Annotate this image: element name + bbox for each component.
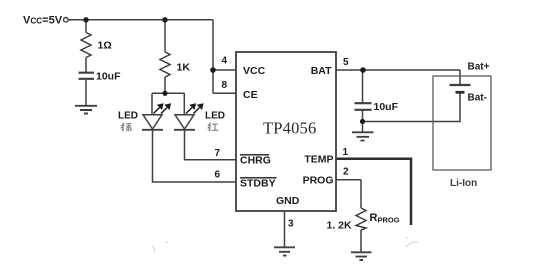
svg-text:1: 1 (343, 147, 349, 158)
svg-text:10uF: 10uF (374, 101, 399, 113)
svg-text:7: 7 (215, 148, 221, 159)
svg-text:VCC: VCC (243, 65, 266, 77)
svg-text:5: 5 (343, 57, 349, 68)
svg-text:CE: CE (243, 89, 258, 101)
svg-text:6: 6 (215, 170, 221, 181)
svg-text:4: 4 (222, 56, 228, 67)
svg-text:1. 2K: 1. 2K (327, 220, 353, 232)
svg-text:PROG: PROG (303, 175, 334, 187)
svg-text:8: 8 (222, 80, 228, 91)
svg-text:RPROG: RPROG (370, 212, 400, 225)
svg-text:Bat+: Bat+ (468, 62, 490, 73)
svg-text:LED: LED (205, 111, 225, 122)
svg-text:BAT: BAT (311, 65, 332, 77)
svg-text:TEMP: TEMP (304, 154, 333, 166)
svg-text:LED: LED (118, 111, 138, 122)
svg-text:Li-Ion: Li-Ion (450, 178, 477, 189)
svg-text:3: 3 (288, 219, 294, 230)
svg-text:GND: GND (276, 195, 300, 207)
svg-text:Bat-: Bat- (468, 93, 487, 104)
svg-text:TP4056: TP4056 (263, 119, 316, 138)
svg-text:10uF: 10uF (96, 71, 121, 83)
svg-text:1K: 1K (177, 62, 191, 74)
svg-text:CHRG: CHRG (240, 155, 271, 167)
svg-text:2: 2 (343, 167, 349, 178)
svg-text:1Ω: 1Ω (98, 40, 112, 52)
svg-text:VCC=5V: VCC=5V (23, 15, 63, 27)
svg-text:STDBY: STDBY (240, 178, 276, 190)
